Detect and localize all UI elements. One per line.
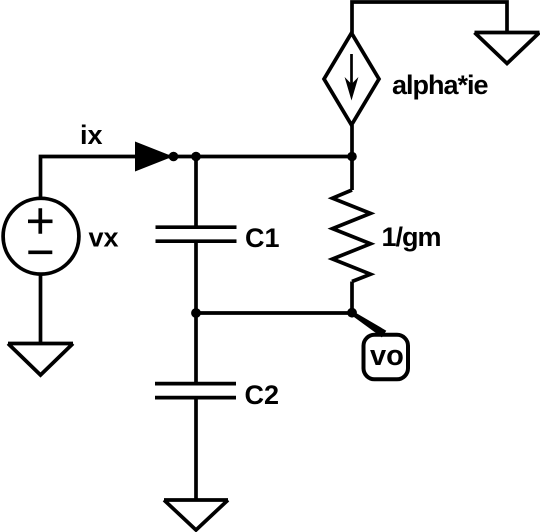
svg-text:ix: ix bbox=[80, 120, 103, 150]
capacitor C2 bbox=[155, 384, 236, 398]
wire node A down to C1 bbox=[194, 157, 198, 228]
wire C2 bottom to ground bbox=[194, 398, 198, 500]
svg-text:C2: C2 bbox=[245, 380, 280, 410]
svg-text:vx: vx bbox=[89, 223, 119, 253]
svg-text:1/gm: 1/gm bbox=[382, 222, 441, 252]
wire vx bottom to ground bbox=[39, 274, 43, 344]
ground (below C2) bbox=[164, 500, 228, 530]
svg-text:alpha*ie: alpha*ie bbox=[392, 70, 489, 100]
node label box vo bbox=[364, 335, 409, 380]
ground (below vx) bbox=[8, 344, 73, 376]
junction dot (top of resistor) bbox=[347, 152, 357, 162]
voltage source vx bbox=[3, 198, 79, 274]
svg-text:C1: C1 bbox=[245, 223, 280, 253]
wire node B to resistor bottom node bbox=[196, 311, 352, 315]
dependent current source alpha*ie bbox=[324, 33, 379, 125]
junction dot node vo bbox=[347, 308, 357, 318]
wire vx top to main node bbox=[41, 157, 353, 199]
wire resistor to node vo bbox=[350, 282, 354, 314]
junction dot node A (top of C1) bbox=[191, 152, 201, 162]
resistor 1/gm bbox=[333, 190, 371, 282]
wire node B down to C2 bbox=[194, 313, 198, 384]
current arrow ix bbox=[135, 142, 173, 172]
svg-text:vo: vo bbox=[370, 340, 404, 372]
wire node to resistor bbox=[350, 157, 354, 191]
junction dot (arrow tip node) bbox=[169, 152, 179, 162]
wire taper to vo pin bbox=[351, 311, 386, 337]
wire diamond bottom to node bbox=[350, 125, 354, 157]
ground (top right) bbox=[475, 33, 540, 64]
capacitor C1 bbox=[156, 227, 237, 241]
wire C1 bottom to node B bbox=[194, 241, 198, 313]
junction dot node B bbox=[191, 308, 201, 318]
wire top rail bbox=[352, 2, 507, 33]
